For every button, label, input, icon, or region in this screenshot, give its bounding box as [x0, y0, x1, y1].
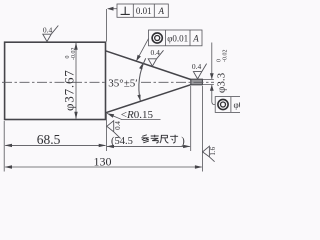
svg-text:-0.02: -0.02: [71, 48, 77, 61]
svg-text:φ3.3: φ3.3: [215, 72, 227, 93]
svg-text:A: A: [158, 6, 165, 16]
svg-text:68.5: 68.5: [37, 132, 61, 147]
svg-text:35°±5′: 35°±5′: [108, 78, 137, 90]
svg-text:-0.02: -0.02: [223, 50, 229, 63]
svg-text:130: 130: [94, 154, 112, 168]
svg-text:(54.5: (54.5: [111, 136, 133, 147]
svg-text:0.4: 0.4: [151, 48, 161, 57]
svg-text:0.01: 0.01: [136, 6, 152, 16]
svg-text:A: A: [192, 33, 199, 43]
svg-text:<R0.15: <R0.15: [121, 109, 154, 121]
svg-text:0.4: 0.4: [114, 121, 122, 130]
svg-text:φ0.01: φ0.01: [167, 33, 188, 43]
svg-text:φ0.01: φ0.01: [234, 100, 241, 110]
svg-text:0: 0: [65, 56, 71, 59]
svg-text:φ37.67: φ37.67: [61, 69, 76, 111]
svg-text:): ): [181, 136, 185, 147]
svg-text:0: 0: [216, 59, 222, 62]
svg-text:0.4: 0.4: [43, 25, 53, 34]
svg-text:0.4: 0.4: [192, 62, 202, 71]
svg-text:1.6: 1.6: [209, 146, 217, 155]
